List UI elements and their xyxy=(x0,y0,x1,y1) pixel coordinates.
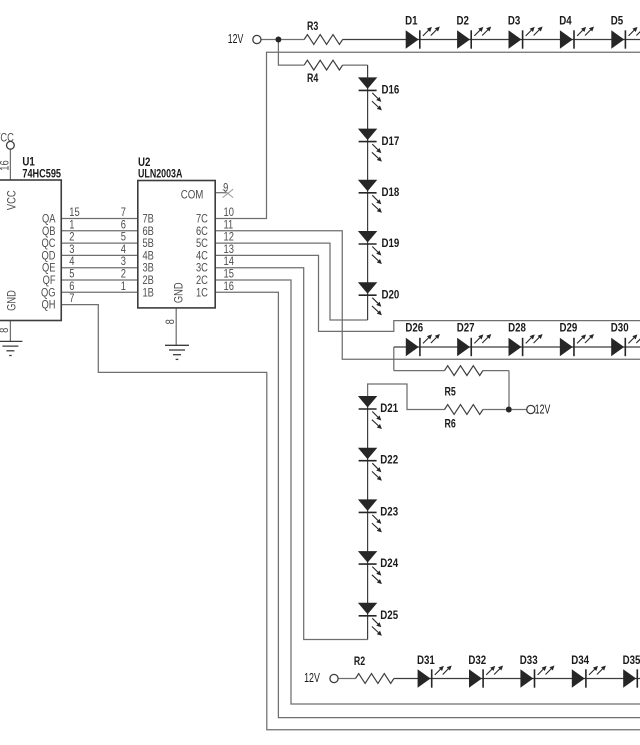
svg-text:15: 15 xyxy=(224,269,234,281)
svg-text:3: 3 xyxy=(121,256,126,268)
svg-text:74HC595: 74HC595 xyxy=(22,167,61,181)
svg-text:7: 7 xyxy=(121,207,126,219)
svg-text:D16: D16 xyxy=(382,83,400,97)
svg-text:7: 7 xyxy=(69,293,74,305)
svg-text:5: 5 xyxy=(69,269,74,281)
svg-text:5: 5 xyxy=(121,232,126,244)
svg-text:D27: D27 xyxy=(457,321,475,335)
svg-text:1B: 1B xyxy=(143,287,155,299)
svg-text:4B: 4B xyxy=(143,250,155,262)
svg-text:D2: D2 xyxy=(457,14,470,28)
svg-text:D3: D3 xyxy=(508,14,521,28)
svg-text:D31: D31 xyxy=(417,653,435,667)
svg-text:12: 12 xyxy=(224,232,234,244)
svg-text:R4: R4 xyxy=(307,71,319,85)
svg-text:D17: D17 xyxy=(382,134,400,148)
svg-text:COM: COM xyxy=(181,187,204,201)
svg-text:12V: 12V xyxy=(304,670,320,685)
svg-text:R5: R5 xyxy=(445,385,457,399)
svg-text:10: 10 xyxy=(224,207,234,219)
svg-text:4: 4 xyxy=(121,244,127,256)
svg-text:D4: D4 xyxy=(559,14,572,28)
svg-text:2: 2 xyxy=(121,269,126,281)
svg-text:D32: D32 xyxy=(468,653,486,667)
svg-text:QD: QD xyxy=(42,250,56,262)
svg-text:VCC: VCC xyxy=(7,190,19,210)
svg-text:ULN2003A: ULN2003A xyxy=(138,167,183,181)
svg-text:3B: 3B xyxy=(143,263,155,275)
svg-text:6: 6 xyxy=(121,219,126,231)
svg-text:QH: QH xyxy=(42,300,56,312)
svg-text:D33: D33 xyxy=(520,653,538,667)
svg-text:D5: D5 xyxy=(611,14,624,28)
svg-text:7C: 7C xyxy=(196,214,208,226)
svg-text:7B: 7B xyxy=(143,214,155,226)
svg-text:D28: D28 xyxy=(508,321,526,335)
svg-text:D21: D21 xyxy=(380,401,398,415)
svg-text:2B: 2B xyxy=(143,275,155,287)
svg-text:D22: D22 xyxy=(380,453,398,467)
svg-text:5C: 5C xyxy=(196,238,208,250)
svg-text:R6: R6 xyxy=(445,417,457,431)
svg-text:2: 2 xyxy=(69,232,74,244)
svg-text:QA: QA xyxy=(42,214,56,226)
svg-text:QG: QG xyxy=(41,287,56,299)
svg-text:D23: D23 xyxy=(380,504,398,518)
svg-text:8: 8 xyxy=(165,319,177,324)
svg-text:VCC: VCC xyxy=(0,132,14,144)
svg-text:6B: 6B xyxy=(143,226,155,238)
svg-text:6C: 6C xyxy=(196,226,208,238)
svg-text:14: 14 xyxy=(224,256,235,268)
svg-text:D24: D24 xyxy=(380,556,398,570)
svg-text:R2: R2 xyxy=(354,654,366,668)
svg-text:QF: QF xyxy=(43,275,56,287)
svg-text:1C: 1C xyxy=(196,287,208,299)
svg-text:D35: D35 xyxy=(623,653,640,667)
svg-text:2C: 2C xyxy=(196,275,208,287)
svg-text:R3: R3 xyxy=(307,19,319,33)
svg-text:1: 1 xyxy=(121,281,126,293)
svg-text:15: 15 xyxy=(69,207,79,219)
svg-text:4: 4 xyxy=(69,256,75,268)
svg-text:3C: 3C xyxy=(196,263,208,275)
svg-text:4C: 4C xyxy=(196,250,208,262)
svg-text:D29: D29 xyxy=(559,321,577,335)
svg-text:D20: D20 xyxy=(382,287,400,301)
svg-text:D34: D34 xyxy=(571,653,589,667)
svg-text:8: 8 xyxy=(0,328,11,333)
svg-text:D26: D26 xyxy=(405,321,423,335)
svg-text:12V: 12V xyxy=(535,401,551,416)
svg-text:3: 3 xyxy=(69,244,74,256)
svg-text:QB: QB xyxy=(42,226,56,238)
svg-text:12V: 12V xyxy=(228,31,244,46)
svg-text:9: 9 xyxy=(223,182,228,194)
svg-text:13: 13 xyxy=(224,244,234,256)
svg-text:D1: D1 xyxy=(405,14,418,28)
svg-text:1: 1 xyxy=(69,219,74,231)
svg-text:16: 16 xyxy=(0,160,12,170)
svg-text:QE: QE xyxy=(42,263,56,275)
svg-text:5B: 5B xyxy=(143,238,155,250)
svg-text:GND: GND xyxy=(7,290,19,311)
svg-text:D25: D25 xyxy=(380,608,398,622)
svg-text:11: 11 xyxy=(224,219,234,231)
svg-text:D30: D30 xyxy=(611,321,629,335)
svg-text:D18: D18 xyxy=(382,185,400,199)
svg-text:QC: QC xyxy=(42,238,56,250)
svg-text:GND: GND xyxy=(173,282,185,303)
svg-text:6: 6 xyxy=(69,281,74,293)
svg-text:16: 16 xyxy=(224,281,234,293)
svg-text:D19: D19 xyxy=(382,236,400,250)
